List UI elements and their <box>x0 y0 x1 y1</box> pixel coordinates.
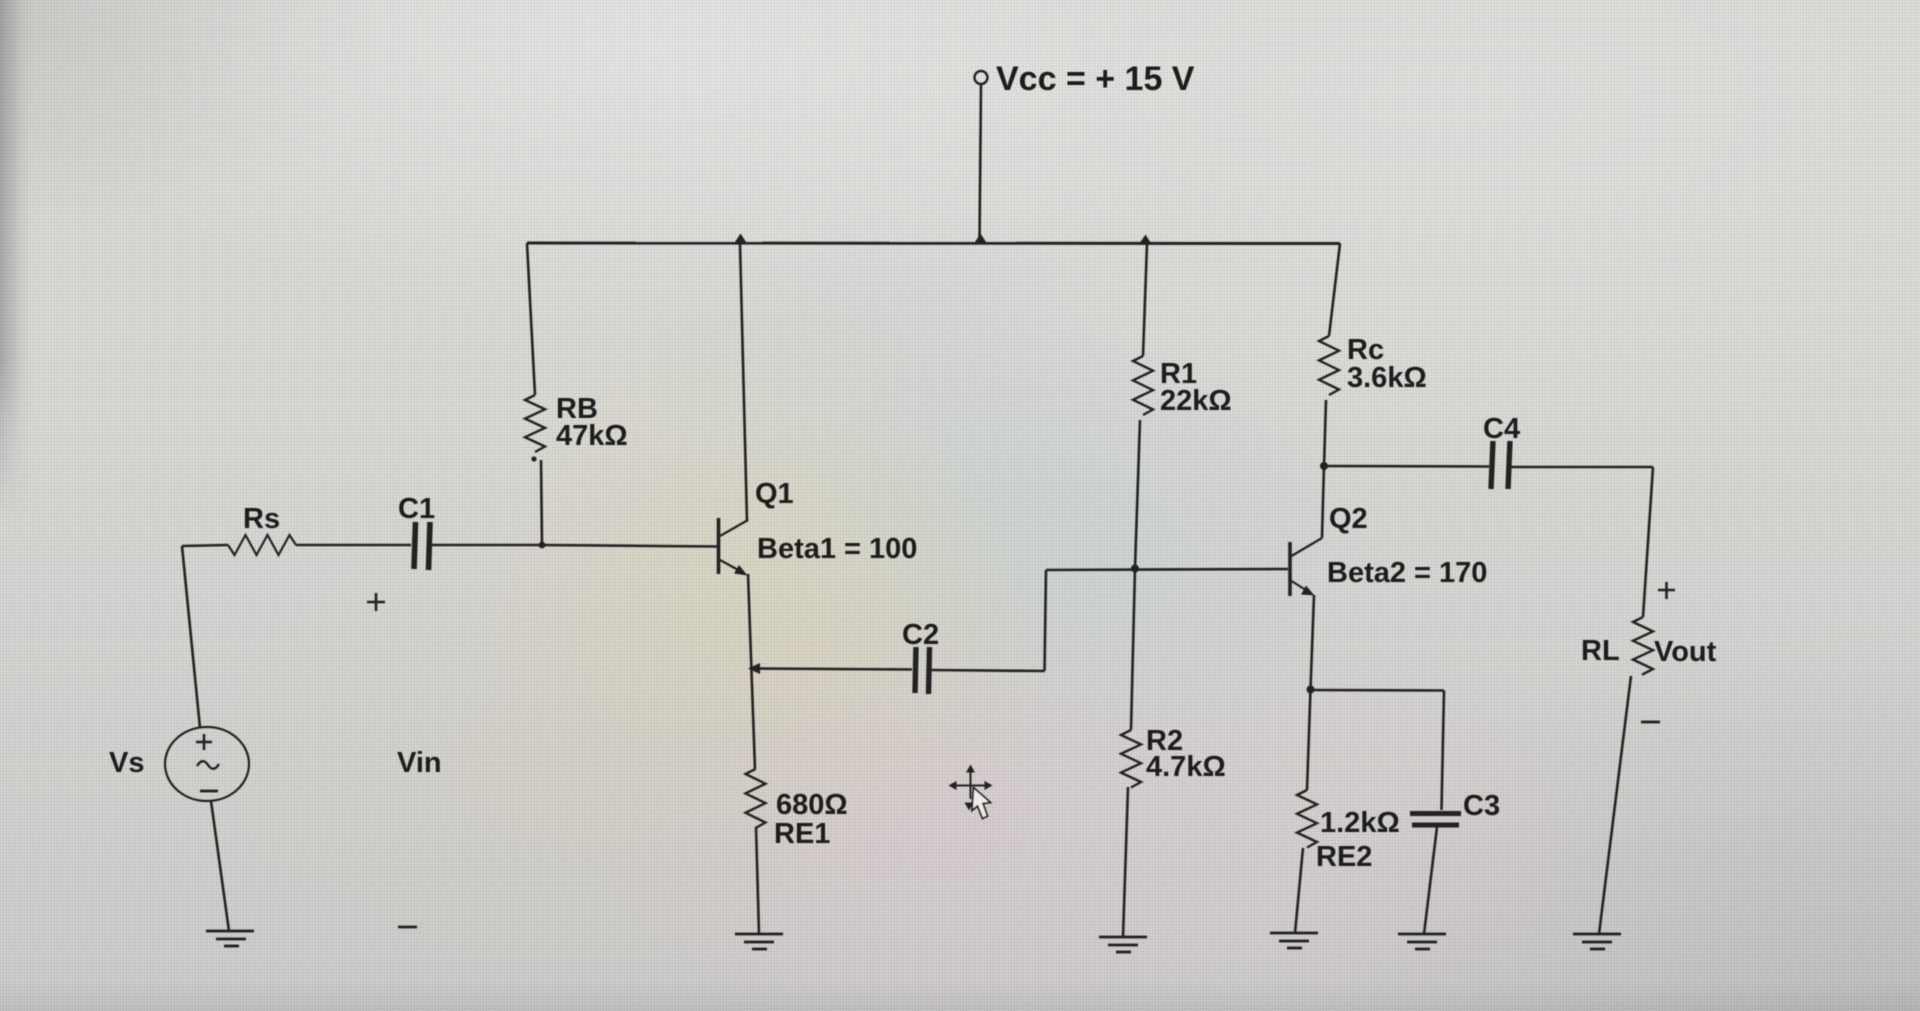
wire source bottom <box>211 801 229 931</box>
wire Rc bottom <box>1324 400 1326 466</box>
wire base Q1 <box>542 545 717 547</box>
capacitor C3 <box>1410 814 1461 826</box>
wire R2 bottom <box>1123 787 1128 937</box>
node base junction <box>1131 565 1139 573</box>
wire C4 right <box>1511 466 1653 469</box>
wire Rc top <box>1329 244 1340 337</box>
wire C2 left <box>752 669 912 670</box>
svg-text:C3: C3 <box>1463 790 1500 822</box>
svg-text:680Ω: 680Ω <box>776 789 848 821</box>
label source minus <box>200 790 218 793</box>
transistor Q1 <box>719 518 749 576</box>
label Vin minus <box>398 926 417 929</box>
resistor RE2 <box>1297 790 1317 848</box>
ground G6 <box>1573 934 1621 949</box>
svg-text:Vin: Vin <box>397 747 442 779</box>
wire C3 top <box>1442 691 1445 811</box>
label source plus <box>196 734 212 750</box>
svg-text:22kΩ: 22kΩ <box>1160 385 1232 417</box>
ground G5 <box>1398 934 1446 949</box>
node Vcc junction <box>974 234 987 244</box>
wire source top <box>182 546 200 728</box>
svg-text:Vs: Vs <box>109 747 144 779</box>
wire RL bottom <box>1599 676 1631 934</box>
wire RB top <box>527 243 535 395</box>
resistor R2 <box>1121 730 1141 788</box>
wire R1 top <box>1143 244 1147 356</box>
ground G2 <box>735 934 783 949</box>
svg-text:Q2: Q2 <box>1329 503 1368 535</box>
wire Q1 emitter <box>748 574 755 769</box>
resistor RE1 <box>746 769 766 828</box>
svg-text:Vout: Vout <box>1654 636 1717 668</box>
svg-text:Beta1 = 100: Beta1 = 100 <box>757 533 917 565</box>
svg-text:3.6kΩ: 3.6kΩ <box>1347 362 1427 394</box>
wire RB bottom <box>541 460 542 545</box>
capacitor C1 <box>414 522 430 570</box>
label Vin plus <box>367 593 385 611</box>
svg-text:RE1: RE1 <box>774 818 830 850</box>
wire C1 to Rs <box>296 544 411 547</box>
node emitter tee <box>748 663 760 674</box>
wire emitter2 to C3 <box>1311 689 1445 692</box>
ground G3 <box>1099 937 1147 952</box>
svg-text:4.7kΩ: 4.7kΩ <box>1146 751 1226 783</box>
wire RE2 bottom <box>1295 848 1303 933</box>
wire Q2 emitter <box>1311 595 1315 689</box>
wire Q2 base line <box>1046 569 1288 570</box>
capacitor C2 <box>915 647 930 694</box>
wire Rs to corner <box>182 545 228 546</box>
svg-text:RE2: RE2 <box>1316 841 1372 873</box>
svg-text:47kΩ: 47kΩ <box>556 420 628 452</box>
node B1 <box>539 542 546 549</box>
wire node to C1 <box>432 544 542 547</box>
label Vout plus <box>1658 582 1675 599</box>
transistor Q2 <box>1290 538 1322 596</box>
svg-text:Rs: Rs <box>243 503 280 535</box>
node R1 junction <box>1139 235 1152 245</box>
wire C4 left <box>1324 465 1489 468</box>
resistor Rs <box>228 535 296 555</box>
wire C2 riser <box>1045 570 1047 671</box>
resistor RL <box>1633 617 1653 675</box>
wire RL top <box>1643 467 1653 617</box>
svg-text:1.2kΩ: 1.2kΩ <box>1320 807 1400 839</box>
svg-text:Q1: Q1 <box>755 478 794 510</box>
wire RE1 bottom <box>756 827 759 934</box>
resistor Rc <box>1319 336 1339 395</box>
wire Q2 collector <box>1322 465 1324 538</box>
ground G4 <box>1270 933 1318 948</box>
node RB pin dot <box>531 456 536 461</box>
wire Vcc stub <box>980 85 982 242</box>
wire C3 bottom <box>1424 827 1437 934</box>
cursor icon <box>949 765 993 819</box>
wire RE2 top <box>1307 689 1311 790</box>
svg-text:Beta2 = 170: Beta2 = 170 <box>1327 557 1487 589</box>
svg-text:RL: RL <box>1581 635 1620 667</box>
ground G1 <box>206 931 254 946</box>
wire Q1 collector <box>740 244 747 521</box>
svg-text:C2: C2 <box>902 619 939 651</box>
resistor R1 <box>1133 356 1153 415</box>
svg-text:C4: C4 <box>1483 413 1520 445</box>
label Vout minus <box>1641 721 1660 724</box>
resistor RB <box>525 395 545 452</box>
node collector node <box>1320 462 1328 470</box>
label source sine <box>197 761 219 769</box>
wire Vcc top bus <box>527 242 1340 246</box>
wire R1 bottom <box>1135 420 1140 568</box>
wire R2 top <box>1131 568 1135 730</box>
svg-text:C1: C1 <box>398 493 435 525</box>
node collector junction <box>734 234 747 244</box>
terminal Vcc <box>975 71 988 84</box>
source Vs <box>165 727 249 801</box>
capacitor C4 <box>1491 441 1510 489</box>
svg-text:Vcc = + 15 V: Vcc = + 15 V <box>996 60 1195 98</box>
wire C2 right <box>931 670 1045 671</box>
node emitter2 junction <box>1307 686 1315 694</box>
